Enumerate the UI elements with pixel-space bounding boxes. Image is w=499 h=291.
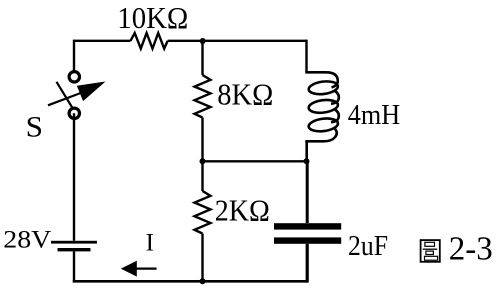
capacitor C1 top lead	[306, 161, 309, 223]
node junction dot middle-left	[200, 158, 206, 164]
current arrow I line	[133, 268, 157, 270]
inductor L1 connector 2-3	[331, 110, 339, 123]
inductor L1 connector 1-2	[331, 91, 339, 104]
svg-text:8KΩ: 8KΩ	[217, 77, 273, 112]
capacitor C1 top plate	[274, 223, 341, 229]
wire middle horizontal	[203, 160, 307, 162]
inductor L1 loop 1	[308, 80, 339, 96]
node junction dot top	[200, 38, 206, 44]
wire right vertical top (to inductor)	[305, 40, 307, 73]
svg-text:28V: 28V	[3, 224, 52, 253]
wire left vertical lower (battery to bottom)	[73, 251, 75, 281]
wire middle branch upper lead	[201, 41, 203, 75]
svg-text:I: I	[146, 230, 154, 257]
caption character 圖 inner top box	[425, 242, 435, 246]
switch arrow line	[48, 93, 82, 106]
battery B1 short plate	[58, 248, 91, 251]
switch S terminal circle top	[69, 72, 79, 82]
switch S terminal circle bottom	[69, 108, 79, 118]
svg-text:10KΩ: 10KΩ	[117, 0, 188, 35]
inductor L1 exit hook	[305, 128, 336, 141]
inductor L1 loop 2	[308, 98, 339, 114]
svg-text:S: S	[26, 111, 43, 143]
wire middle branch lower lead	[201, 234, 203, 282]
node junction dot middle-right	[304, 158, 310, 164]
caption character 圖 outer box	[421, 240, 440, 262]
resistor R2 8KΩ zigzag	[195, 75, 211, 118]
wire top-left horizontal segment	[74, 40, 131, 42]
caption character 圖 bottom box	[425, 256, 438, 260]
svg-text:2KΩ: 2KΩ	[215, 193, 270, 228]
battery B1 long plate	[51, 241, 97, 244]
wire bottom horizontal	[73, 280, 308, 283]
current arrowhead	[121, 261, 137, 277]
wire left vertical middle (switch to battery)	[73, 113, 75, 241]
capacitor C1 bottom lead	[306, 244, 309, 283]
resistor R3 2KΩ zigzag	[195, 191, 211, 234]
switch arrowhead	[77, 82, 106, 102]
svg-text:2-3: 2-3	[449, 231, 493, 268]
inductor L1 entry hook	[305, 72, 338, 87]
resistor R1 10KΩ zigzag	[131, 33, 168, 49]
caption character 圖 middle small box	[426, 251, 434, 254]
wire middle branch between resistors	[201, 118, 203, 192]
wire left vertical upper (to switch)	[73, 40, 75, 71]
inductor L1 loop 3	[308, 117, 339, 133]
svg-text:2uF: 2uF	[348, 230, 388, 262]
wire right vertical (inductor to middle wire)	[305, 141, 308, 161]
wire top-right horizontal segment	[168, 40, 307, 42]
svg-text:4mH: 4mH	[348, 99, 400, 131]
capacitor C1 bottom plate	[274, 237, 341, 243]
caption character 圖 middle horizontal stroke	[423, 248, 438, 250]
node junction dot bottom	[200, 278, 206, 284]
switch blade line	[57, 82, 73, 108]
